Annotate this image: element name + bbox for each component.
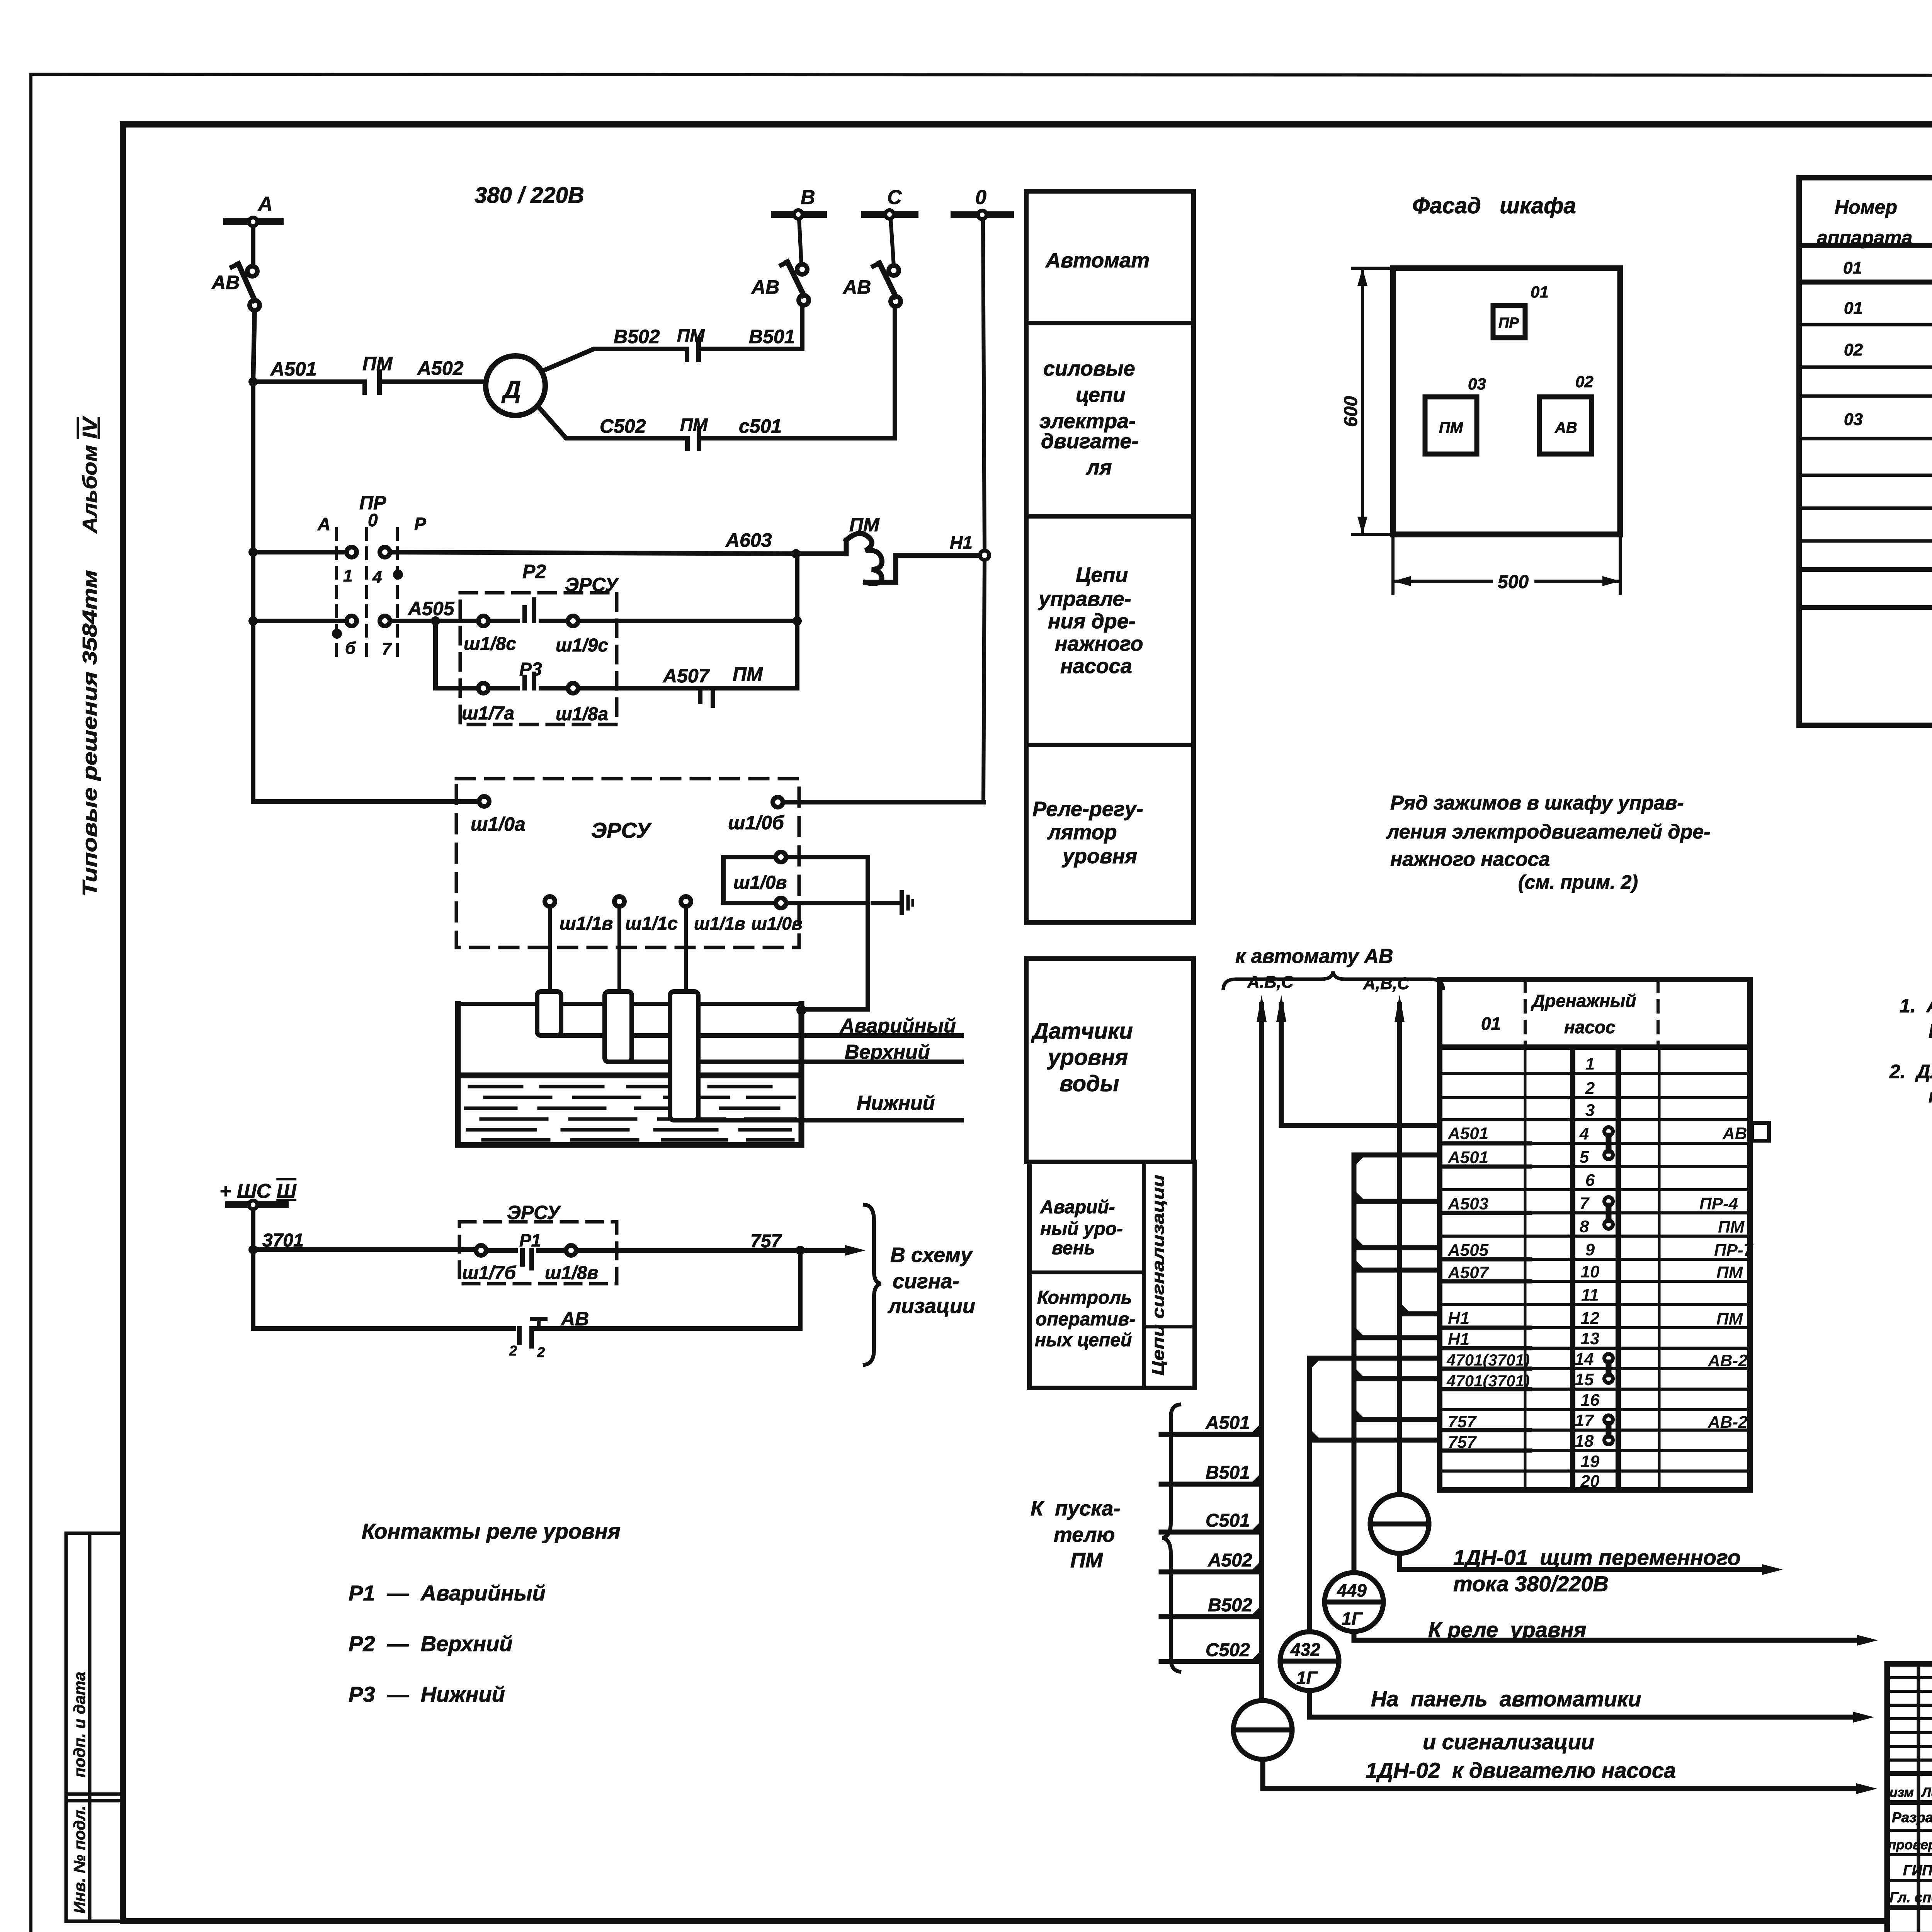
svg-text:03: 03 [1844,410,1863,429]
arrow 757 to signal scheme [800,1248,845,1253]
svg-text:Альбом IV: Альбом IV [79,415,101,534]
wire 757 [576,1248,800,1253]
svg-text:1: 1 [343,566,352,585]
bus 0 [954,211,1010,218]
wire L3 to row15 [1354,1376,1440,1381]
wire bus corner to sh1/0a [253,799,479,804]
svg-text:ш1/0в: ш1/0в [751,913,803,934]
svg-text:А.В,С: А.В,С [1247,973,1294,992]
cable run L3 [1352,1155,1357,1573]
svg-text:01: 01 [1481,1014,1501,1034]
sensor rail Avariyniy [549,1033,962,1038]
terminal sh1/0a circle [479,796,489,806]
svg-text:Р3 — Нижний: Р3 — Нижний [349,1682,505,1706]
wire B502 from motor [543,349,687,371]
wire L2 to row12 [1400,1311,1440,1316]
wire bus B to breaker [799,219,801,264]
svg-text:ПМ: ПМ [733,663,763,685]
svg-text:ПМ: ПМ [362,353,393,374]
stub wire A501 [1161,1432,1262,1437]
svg-text:А501: А501 [1447,1124,1488,1143]
svg-text:С: С [887,186,902,209]
svg-text:ПР-7: ПР-7 [1714,1241,1754,1260]
svg-text:0: 0 [975,186,986,209]
terminal sh1/0v bottom circle [776,898,786,908]
svg-text:электра-: электра- [1039,410,1136,433]
junction node bus to PR row2 [248,616,258,626]
svg-text:Датчики: Датчики [1031,1019,1133,1044]
stub wire C502 [1161,1659,1262,1664]
svg-text:ГИП´: ГИП´ [1903,1862,1932,1878]
motor D [486,356,545,415]
node B tap circle [794,210,803,219]
svg-text:ш1/1в: ш1/1в [560,913,613,934]
header dashed dividers [1525,980,1658,1047]
wire L3 to row7 [1354,1199,1440,1204]
svg-text:Р: Р [414,514,426,534]
wire neutral below H1 down to ERSU [983,560,985,802]
svg-text:двигате-: двигате- [1041,430,1138,453]
stub wire A502 [1161,1570,1262,1575]
contactor contact PM phase A [365,372,379,393]
svg-text:В502: В502 [614,326,660,347]
wire L4 to row14 [1310,1356,1440,1361]
net labels left side [1446,1124,1530,1452]
svg-text:силовые: силовые [1043,357,1135,380]
svg-text:подп. и дата: подп. и дата [70,1672,88,1777]
svg-text:к автомату АВ: к автомату АВ [1235,945,1393,968]
cable run L2 [1397,1005,1402,1495]
wire probe1 [548,906,552,992]
svg-text:Цепи: Цепи [1076,563,1128,587]
svg-text:Реле-регу-: Реле-регу- [1032,798,1143,821]
terminal sh1/0b circle [773,797,783,807]
svg-text:изм: изм [1889,1785,1914,1800]
svg-text:А501: А501 [1447,1148,1488,1167]
svg-text:Гл. спец.: Гл. спец. [1889,1889,1932,1905]
PR contact row1 circles 1-4 [347,547,390,557]
svg-text:А505: А505 [407,598,455,619]
wire probe2 [617,906,621,992]
svg-text:Типовые решения 3584тм: Типовые решения 3584тм [79,570,101,896]
wire right riser A603 to P3 rail [795,554,799,688]
svg-text:2: 2 [537,1344,545,1360]
svg-text:ш1/0а: ш1/0а [471,813,526,835]
svg-text:Автомат: Автомат [1045,249,1150,272]
wire 1DN-01 [1400,1553,1762,1570]
svg-text:телю: телю [1054,1523,1115,1546]
contact P3 [478,674,578,693]
junction node P2 rail right [793,616,802,626]
cable circle 449/1G [1325,1573,1383,1631]
svg-text:АВ-2: АВ-2 [1708,1413,1748,1432]
svg-text:ный уро-: ный уро- [1040,1219,1123,1239]
coil PM [846,534,979,584]
svg-text:02: 02 [1575,372,1594,391]
wire L3 to row10 [1354,1268,1440,1273]
svg-text:9: 9 [1585,1240,1595,1259]
wire lower branch via AV [253,1250,514,1328]
junction node A501 [248,377,258,386]
svg-text:16: 16 [1581,1391,1600,1410]
probe terminal sh1/1v2 circle [681,896,691,906]
svg-text:нажного: нажного [1055,632,1143,655]
probe electrode 1 [537,992,561,1036]
svg-text:ш1/8а: ш1/8а [556,704,608,724]
svg-text:проверил: проверил [1888,1837,1932,1852]
water hatching [466,1087,795,1140]
svg-text:500: 500 [1498,572,1529,592]
svg-text:вень: вень [1052,1238,1095,1259]
svg-text:6: 6 [1585,1171,1595,1190]
svg-text:ПМ: ПМ [1070,1549,1103,1572]
bus A [226,218,280,225]
bus B [774,211,823,218]
svg-text:Нижний: Нижний [857,1092,935,1114]
brace k avtomatu AV [1223,971,1443,988]
junction node bus to PR row1 [248,548,258,557]
cable run L1b row4 [1281,1005,1440,1126]
circuit breaker AV pole A [232,264,260,310]
wire C502 from motor [540,409,687,438]
contact P1 [476,1245,576,1268]
svg-text:А: А [257,193,273,215]
wire left bus down from A501 node [251,382,255,801]
svg-text:ПМ: ПМ [1716,1310,1743,1328]
svg-text:А505: А505 [1447,1241,1489,1260]
wire ShS down to 3701 [251,1209,255,1250]
svg-text:ния дре-: ния дре- [1048,610,1136,633]
loop sh1/0v rectangle [723,857,868,903]
svg-text:ПР-4: ПР-4 [1699,1194,1738,1213]
terminal strip header box [1440,980,1750,1047]
svg-text:02: 02 [1844,340,1863,359]
svg-text:4: 4 [372,568,382,587]
svg-text:15: 15 [1575,1370,1594,1389]
zone box datchiki urovnya vody [1026,959,1194,1162]
ERSU signal dashed box [459,1222,617,1284]
svg-text:+ ШС Ш: + ШС Ш [219,1180,297,1202]
svg-text:13: 13 [1581,1329,1600,1348]
zone box silovye tsepi [1026,323,1194,516]
svg-text:К пуска-: К пуска- [1031,1497,1120,1520]
circuit breaker AV pole B [781,262,809,305]
svg-text:4: 4 [1579,1124,1589,1143]
svg-text:В501: В501 [749,326,795,347]
svg-text:б: б [345,639,356,658]
svg-text:ш1/0б: ш1/0б [728,812,785,833]
svg-text:аппарата: аппарата [1817,227,1912,248]
svg-text:тока 380/220В: тока 380/220В [1453,1571,1609,1596]
svg-text:ш1/9с: ш1/9с [556,635,608,656]
wire bus C to breaker [891,219,894,265]
device PM box [1425,397,1477,454]
wire C501 [699,306,895,438]
ERSU relay unit dashed box [456,779,799,947]
water tank body [458,1004,801,1145]
junction node tank wall [796,1005,806,1015]
cable run L1 to automaton [1259,1005,1264,1701]
svg-text:03: 03 [1468,375,1486,393]
title block left table verticals [1918,1664,1932,1932]
wire 3701 [253,1247,476,1252]
svg-text:Р1: Р1 [519,1230,541,1250]
svg-text:АВ-2: АВ-2 [1708,1351,1748,1370]
svg-text:10: 10 [1581,1262,1600,1281]
svg-text:18: 18 [1575,1432,1594,1451]
svg-text:ш1/7б: ш1/7б [462,1263,516,1283]
svg-text:4701(3701): 4701(3701) [1446,1351,1530,1369]
junction node A603 branch [791,549,801,558]
svg-text:ПМ: ПМ [677,325,705,345]
junction node A505 branch [431,616,440,626]
zone box Avtomat [1026,191,1194,323]
svg-text:14: 14 [1575,1350,1594,1369]
svg-text:ШС-1: ШС-1 [1929,1020,1932,1042]
svg-text:ПР: ПР [1498,315,1519,331]
svg-text:ПМ: ПМ [680,415,708,435]
node A tap circle [249,218,257,226]
svg-text:АВ: АВ [211,272,240,293]
svg-text:управле-: управле- [1037,587,1131,611]
device AV box [1539,397,1592,454]
device PR box [1493,306,1525,338]
svg-text:11: 11 [1581,1286,1599,1304]
moving contact dot row1 pole P [393,570,403,580]
title block outer [1887,1664,1932,1932]
svg-text:1: 1 [1585,1054,1595,1073]
stub wire B501 [1161,1482,1262,1487]
svg-text:ЭРСУ: ЭРСУ [591,818,652,842]
zone box tsepi upravleniya [1026,516,1194,745]
wire k rele urovnya [1354,1631,1857,1640]
selector PR position axes A 0 P [337,529,397,657]
svg-text:7: 7 [382,639,392,658]
wire A505 [390,619,478,623]
divider rotated strip [1142,1162,1146,1388]
zone box rele-regulyator urovnya [1026,745,1194,922]
node C tap circle [885,210,894,219]
bus ShS III bar [229,1201,285,1208]
svg-text:1Г: 1Г [1342,1609,1363,1629]
svg-text:20: 20 [1580,1472,1600,1491]
contactor contact PM phase C [687,428,699,449]
svg-text:сигна-: сигна- [893,1270,959,1293]
svg-text:600: 600 [1341,396,1361,427]
wire L3 to row17 [1354,1417,1440,1422]
sensor rail Verkhniy [618,1060,962,1064]
svg-text:насос: насос [1564,1017,1616,1037]
terminal rows [1440,1073,1750,1471]
svg-text:АВ: АВ [751,276,779,298]
jumper rows 14-15 [1604,1354,1613,1383]
svg-text:Н1: Н1 [1448,1330,1469,1349]
svg-text:ш1/8с: ш1/8с [464,634,516,654]
svg-text:лятор: лятор [1047,821,1117,844]
svg-text:ЭРСУ: ЭРСУ [565,574,619,595]
cable circle to 1DN-02 [1233,1701,1292,1759]
moving contact dot row2 pole A [332,629,342,639]
svg-text:ления электродвигателей дре-: ления электродвигателей дре- [1386,821,1711,843]
svg-text:С501: С501 [1206,1510,1250,1531]
wire sh1/0v loop down to tank [801,903,868,1009]
cabinet outline [1393,268,1620,534]
svg-text:ля: ля [1085,456,1112,479]
svg-text:А507: А507 [662,665,710,687]
wire AV branch to 757 node [532,1250,800,1328]
wire bus to PR contact 1 [253,550,347,554]
svg-text:В схему: В схему [890,1243,973,1267]
terminal sh1/0v top circle [776,852,786,862]
svg-text:3: 3 [1585,1101,1595,1120]
svg-text:7: 7 [1580,1194,1590,1213]
svg-text:В: В [801,186,815,209]
ground symbol [902,893,913,913]
junction node 757 [796,1246,805,1255]
wire bus to PR contact row2 [253,619,347,623]
stub wire B502 [1161,1614,1262,1619]
svg-text:8: 8 [1580,1217,1589,1236]
svg-text:1Г: 1Г [1296,1668,1318,1688]
jumper rows 17-18 [1604,1415,1613,1444]
node H1 circle [980,551,989,560]
junction node 3701 [248,1245,258,1254]
svg-text:уровня: уровня [1061,845,1137,868]
wire bus A to breaker AV pole A [251,226,255,266]
svg-text:(см. прим. 2): (см. прим. 2) [1518,871,1638,893]
svg-text:ш1/1в: ш1/1в [694,913,745,934]
svg-text:01: 01 [1844,299,1863,318]
sensor rail Nizhniy [684,1118,962,1122]
wire A507 [578,686,797,690]
jumper rows 4-5 [1604,1127,1613,1159]
svg-text:17: 17 [1575,1411,1595,1430]
svg-text:А: А [317,514,330,534]
svg-text:ш1/7а: ш1/7а [462,703,514,724]
svg-text:Р1 — Аварийный: Р1 — Аварийный [349,1581,546,1605]
svg-text:380 / 220В: 380 / 220В [474,183,584,208]
svg-text:19: 19 [1581,1452,1600,1471]
svg-text:А503: А503 [1447,1194,1488,1213]
svg-text:ПМ: ПМ [1716,1263,1743,1282]
svg-text:цепи: цепи [1076,383,1126,406]
cable run L4 [1307,1358,1312,1631]
svg-text:А501: А501 [270,358,317,380]
svg-text:В502: В502 [1208,1595,1252,1616]
svg-text:432: 432 [1290,1639,1320,1660]
svg-text:Аварий-: Аварий- [1040,1197,1115,1218]
contact P2 [478,600,578,626]
wire to ground symbol [873,901,899,905]
jumper rows 7-8 [1604,1197,1613,1229]
bus C [864,211,915,218]
dimension 600 vertical [1352,268,1393,534]
svg-text:2: 2 [1585,1079,1595,1098]
svg-text:449: 449 [1337,1580,1367,1600]
wire probe3 [684,906,688,992]
svg-text:Контакты реле уровня: Контакты реле уровня [362,1519,621,1543]
wire 1DN-02 [1263,1759,1856,1789]
wire L3 to row5 [1354,1153,1440,1158]
svg-text:ПМ: ПМ [849,514,880,536]
equipment table frame [1799,178,1932,725]
svg-text:уровня: уровня [1047,1045,1128,1070]
brace to signal scheme [865,1205,881,1365]
svg-text:На панель автоматики: На панель автоматики [1371,1687,1641,1711]
svg-text:АВ: АВ [1554,419,1577,436]
svg-text:01: 01 [1843,259,1862,277]
stub wire C501 [1161,1530,1262,1535]
equipment table horizontal lines [1799,245,1932,685]
svg-text:лизации: лизации [887,1294,975,1318]
svg-text:А502: А502 [1207,1550,1252,1571]
svg-text:ЭРСУ: ЭРСУ [507,1202,561,1223]
svg-text:Верхний: Верхний [845,1041,930,1063]
cable circle 432/1G [1280,1632,1339,1690]
svg-text:5: 5 [1580,1148,1589,1167]
node 0 tap circle [978,211,986,219]
svg-text:Дренажный: Дренажный [1531,991,1636,1011]
svg-text:Лист.: Лист. [1921,1785,1932,1800]
svg-text:Разраб.: Разраб. [1892,1810,1932,1825]
svg-text:С502: С502 [1206,1640,1250,1660]
svg-text:АВ: АВ [842,276,871,298]
svg-text:меняется на 2Г.: меняется на 2Г. [1929,1085,1932,1107]
circuit breaker AV pole C [873,263,901,306]
wire branch down to P3 rail [435,621,478,688]
wire na panel [1310,1690,1853,1717]
svg-text:С502: С502 [600,415,646,437]
water surface line [458,1073,801,1078]
svg-text:ПМ: ПМ [1439,419,1464,436]
svg-text:1ДН-01 щит переменного: 1ДН-01 щит переменного [1453,1545,1741,1570]
probe terminal sh1/1s circle [614,896,624,906]
svg-text:А502: А502 [417,357,464,379]
contactor contact PM in A507 [700,688,713,706]
svg-text:12: 12 [1581,1309,1600,1328]
wire breaker A down to node A501 [253,310,255,382]
svg-text:0: 0 [368,510,378,530]
svg-text:2: 2 [509,1343,517,1359]
svg-text:ш1/1с: ш1/1с [625,913,678,934]
wire neutral 0 down to H1 [983,219,985,550]
wire A603 from PR to PM coil [390,552,846,554]
probe electrode 3 [670,992,698,1120]
svg-text:Номер: Номер [1835,196,1897,218]
svg-text:1ДН-02 к двигателю насоса: 1ДН-02 к двигателю насоса [1366,1758,1676,1782]
svg-text:оператив-: оператив- [1036,1309,1135,1330]
tap circle ShS III [249,1201,257,1209]
contact AV auxiliary [519,1319,546,1346]
svg-text:АВ: АВ [1722,1124,1747,1143]
svg-text:А603: А603 [725,529,772,551]
svg-text:ш1/8в: ш1/8в [545,1263,598,1283]
wire L4 to row18 [1310,1438,1440,1443]
terminal strip verticals [1525,1047,1659,1490]
title block left table rows [1887,1678,1932,1932]
net labels right side [1699,1124,1754,1432]
svg-text:3701: 3701 [262,1230,304,1251]
svg-text:В501: В501 [1206,1463,1250,1483]
svg-text:757: 757 [750,1231,782,1252]
svg-text:нажного насоса: нажного насоса [1390,848,1550,871]
svg-text:2. Для синхронного компенса: 2. Для синхронного компенсатора 2СК марк… [1889,1061,1932,1082]
zone box avariyniy uroven / kontrol [1029,1162,1195,1388]
svg-text:01: 01 [1531,283,1549,301]
svg-text:ных цепей: ных цепей [1035,1330,1132,1350]
svg-text:ш1/0в: ш1/0в [733,872,787,893]
strip inner divider [1144,1325,1195,1328]
